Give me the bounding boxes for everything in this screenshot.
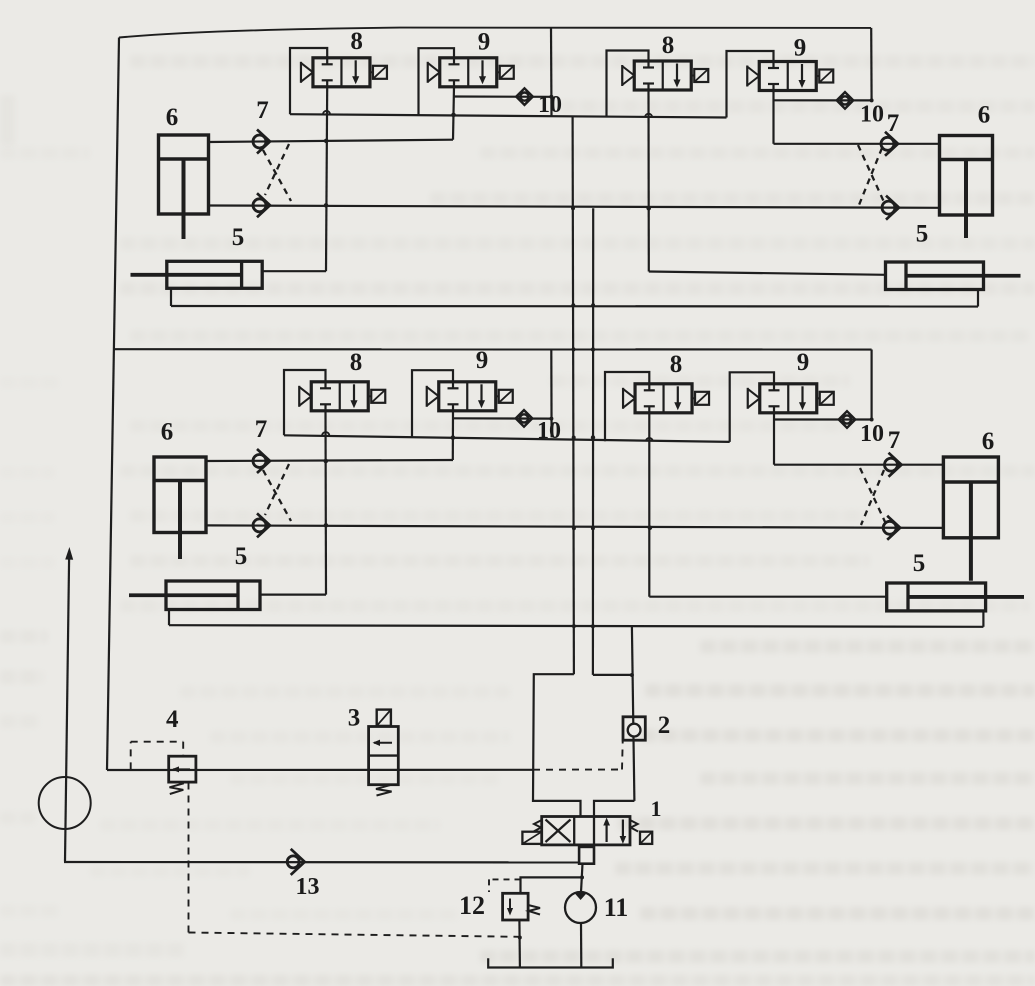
valve 9 top-right body bbox=[759, 62, 816, 91]
check valve 7 bottom-left lower bbox=[253, 513, 270, 537]
wire: cyl5 BL right port bbox=[260, 593, 326, 595]
wire: top group B line bbox=[209, 206, 940, 208]
wire: pump suction line bbox=[64, 861, 579, 864]
wire: top group A line left bbox=[209, 140, 454, 142]
junction marks center column bbox=[571, 206, 634, 677]
check valve 7 top-right upper bbox=[881, 132, 898, 156]
valve 9 bottom-right pilot actuator bbox=[817, 392, 834, 405]
wire: bottom group B line bbox=[206, 525, 943, 528]
valve 9 (top left) bracket bbox=[419, 48, 455, 115]
valve 8 bottom-right body bbox=[635, 384, 692, 413]
valve 1 left spring and pilot bbox=[522, 820, 541, 844]
wire: cyl5 BR lower loop bbox=[982, 611, 984, 627]
junction pump tee bbox=[580, 875, 584, 879]
valve 8 bottom-left lever actuator bbox=[299, 386, 311, 407]
check valve 7 top-right lower bbox=[882, 196, 899, 220]
valve 8 bottom-left pilot actuator bbox=[368, 390, 385, 403]
svg-text:8: 8 bbox=[350, 349, 363, 376]
valve 8 top-right lever actuator bbox=[622, 65, 634, 86]
wire: valve 8 TL lower port line bbox=[326, 87, 327, 271]
valve 12 pilot dashes bbox=[489, 879, 521, 892]
wire: right lower riser to border bbox=[870, 350, 872, 420]
cylinder 5 bottom-left bbox=[129, 581, 260, 610]
pilot cross lines bottom-left bbox=[263, 464, 291, 521]
valve 9 top-left pilot actuator bbox=[497, 66, 514, 79]
valve 9 (top right) bracket bbox=[727, 51, 774, 118]
wire: center supply down line bbox=[573, 116, 574, 674]
valve 8 bottom-left body bbox=[311, 382, 368, 411]
wire: BL check 10 feed bbox=[453, 417, 552, 420]
cylinder 6 bottom-right bbox=[943, 457, 998, 581]
cylinder 6 top-left bbox=[159, 135, 209, 239]
tank bbox=[488, 958, 613, 967]
svg-text:9: 9 bbox=[476, 347, 489, 374]
svg-text:6: 6 bbox=[166, 104, 179, 131]
valve 8 top-right body bbox=[634, 61, 691, 90]
cylinder 6 top-right bbox=[940, 136, 993, 239]
wire: bottom group supply bus bbox=[284, 435, 730, 442]
component 3 shut-off valve bbox=[369, 710, 399, 796]
valve 9 (bottom left) bracket bbox=[412, 370, 453, 437]
svg-text:7: 7 bbox=[255, 416, 268, 443]
wire: valve 9 BR lower port line bbox=[773, 413, 775, 465]
wire: cyl5 TL right port bbox=[262, 270, 326, 272]
svg-text:7: 7 bbox=[256, 97, 269, 124]
directional valve 1 body bbox=[542, 817, 630, 845]
cylinder 6 bottom-left bbox=[154, 457, 206, 559]
svg-text:3: 3 bbox=[348, 705, 361, 732]
check valve 7 top-left lower bbox=[253, 193, 270, 217]
wire: center B down line bbox=[592, 208, 594, 675]
svg-text:10: 10 bbox=[860, 102, 884, 128]
valve 8 top-right pilot actuator bbox=[691, 69, 708, 82]
wire: box right branch bbox=[593, 674, 632, 676]
wire: box right wall upper bbox=[632, 626, 635, 801]
svg-text:11: 11 bbox=[604, 893, 629, 922]
junction drain/pilot bbox=[518, 936, 522, 940]
wire: top group supply bus bbox=[290, 114, 727, 117]
svg-text:6: 6 bbox=[982, 428, 995, 455]
check valve 7 bottom-right upper bbox=[885, 453, 902, 477]
valve 9 top-right lever actuator bbox=[747, 66, 759, 87]
cylinder 5 top-right bbox=[886, 262, 1021, 290]
svg-text:5: 5 bbox=[916, 221, 929, 248]
svg-text:8: 8 bbox=[670, 351, 683, 378]
pilot cross lines bottom-right bbox=[860, 468, 886, 525]
wire: TL check 10 feed bbox=[454, 95, 552, 98]
component 4 regulator valve bbox=[169, 756, 196, 794]
svg-text:5: 5 bbox=[913, 550, 926, 577]
wire: bottom group A line left bbox=[206, 460, 453, 461]
valve 1 bottom port box bbox=[579, 847, 594, 864]
svg-text:6: 6 bbox=[161, 419, 174, 446]
wire: pump to valve 1 bbox=[581, 864, 583, 893]
wire: regulator line bbox=[107, 769, 533, 771]
valve 1 right spring and pilot bbox=[630, 820, 652, 844]
pump 11 bbox=[565, 892, 596, 923]
wire: valve 9 TL lower port line bbox=[453, 87, 454, 140]
valve 8 (top left) bracket bbox=[290, 48, 327, 114]
valve 9 bottom-left body bbox=[439, 382, 496, 411]
valve 9 bottom-left pilot actuator bbox=[496, 390, 513, 403]
wire: cyl5 BR left port bbox=[649, 596, 886, 598]
wire: top group A line right bbox=[774, 143, 940, 145]
wire: pump drain bbox=[580, 923, 582, 967]
wire: box left wall bbox=[533, 674, 581, 816]
valve 8 top-left body bbox=[313, 58, 370, 87]
valve 9 (bottom right) bracket bbox=[730, 372, 774, 442]
svg-text:7: 7 bbox=[887, 110, 900, 137]
compressor circle bbox=[39, 777, 91, 829]
compressor outlet arrow bbox=[65, 547, 73, 862]
component 4 pilot dashed box bbox=[131, 742, 184, 770]
wire: bottom cylinders lower line bbox=[169, 625, 983, 627]
wire: outer top border bbox=[119, 28, 871, 38]
svg-text:2: 2 bbox=[658, 712, 671, 739]
svg-text:9: 9 bbox=[478, 29, 491, 56]
wire: bottom group A line right bbox=[774, 464, 943, 466]
wire: valve 8 TR lower port line bbox=[647, 90, 649, 272]
check valve 13 bbox=[287, 849, 305, 875]
valve 8 top-left pilot actuator bbox=[370, 66, 387, 79]
component 2 pressure switch bbox=[623, 717, 645, 740]
junction marks TL bbox=[323, 95, 554, 208]
check valve 7 bottom-right lower bbox=[883, 516, 900, 540]
pilot cross lines top-left bbox=[263, 144, 291, 201]
svg-text:5: 5 bbox=[235, 543, 248, 570]
junction marks TR bbox=[645, 98, 874, 210]
valve 8 (bottom right) bracket bbox=[605, 372, 649, 441]
valve 8 bottom-right lever actuator bbox=[623, 388, 635, 409]
component 4 pilot line to valve 12 bbox=[189, 783, 520, 937]
svg-text:5: 5 bbox=[232, 224, 245, 251]
check valve 10 top-right bbox=[837, 92, 854, 109]
valve 8 top-left lever actuator bbox=[301, 62, 313, 83]
valve 8 (bottom left) bracket bbox=[284, 370, 326, 435]
svg-text:6: 6 bbox=[978, 102, 991, 129]
wire: valve 9 TR lower port line bbox=[772, 91, 774, 144]
check valve 10 bottom-left bbox=[516, 410, 533, 427]
check valve 10 bottom-right bbox=[839, 411, 856, 428]
junction marks BL bbox=[322, 417, 553, 528]
valve 9 top-left body bbox=[440, 58, 497, 87]
wire: TR check 10 feed bbox=[774, 99, 872, 101]
check valve 10 top-left bbox=[516, 88, 533, 105]
wire: cyl5 TR lower loop bbox=[977, 290, 979, 307]
wire: outer left border bbox=[107, 38, 119, 771]
pilot line to component 2 bbox=[533, 742, 623, 770]
wire: valve 8 BR lower port line bbox=[648, 413, 650, 597]
valve 9 top-right pilot actuator bbox=[816, 70, 833, 83]
valve 8 bottom-right pilot actuator bbox=[692, 392, 709, 405]
wire: cyl5 TR left port bbox=[649, 272, 886, 275]
svg-text:4: 4 bbox=[166, 706, 179, 733]
wire: branch to relief valve 12 bbox=[521, 877, 583, 893]
valve 8 (top right) bracket bbox=[607, 51, 649, 118]
wire: center line top border to bus bbox=[550, 28, 553, 116]
wire: cyl5 TL lower loop bbox=[170, 288, 172, 306]
wire: lower group top rail bbox=[114, 348, 872, 350]
valve 9 bottom-right lever actuator bbox=[748, 388, 760, 409]
valve 9 bottom-right body bbox=[760, 384, 817, 413]
svg-text:7: 7 bbox=[888, 427, 901, 454]
wire: BR check 10 feed bbox=[774, 418, 872, 420]
wire: top cylinders lower line bbox=[171, 305, 978, 308]
valve 9 top-left lever actuator bbox=[428, 62, 440, 83]
svg-text:8: 8 bbox=[350, 28, 363, 55]
valve 9 bottom-left lever actuator bbox=[427, 386, 439, 407]
svg-text:8: 8 bbox=[662, 32, 675, 59]
svg-text:10: 10 bbox=[860, 421, 884, 447]
cylinder 5 bottom-right bbox=[887, 583, 1024, 611]
svg-text:12: 12 bbox=[459, 891, 485, 920]
wire: valve 8 BL lower port line bbox=[324, 411, 327, 595]
pilot cross lines top-right bbox=[858, 145, 884, 205]
svg-text:10: 10 bbox=[537, 418, 561, 444]
check valve 7 bottom-left upper bbox=[253, 449, 270, 473]
wire: center line lower border to lower bus bbox=[550, 350, 552, 438]
check valve 7 top-left upper bbox=[253, 130, 270, 154]
svg-text:9: 9 bbox=[794, 35, 807, 62]
svg-text:13: 13 bbox=[296, 874, 320, 900]
wire: valve 12 drain bbox=[518, 920, 521, 967]
wire: valve 9 BL lower port line bbox=[452, 411, 454, 460]
svg-text:9: 9 bbox=[797, 349, 810, 376]
junction marks BR bbox=[646, 418, 874, 531]
cylinder 5 top-left bbox=[131, 261, 263, 288]
wire: right top riser to border bbox=[870, 28, 873, 101]
svg-text:1: 1 bbox=[651, 796, 662, 821]
relief valve 12 bbox=[503, 893, 540, 920]
wire: cyl5 BL lower loop bbox=[168, 610, 170, 626]
wire: box right port bbox=[594, 801, 634, 816]
